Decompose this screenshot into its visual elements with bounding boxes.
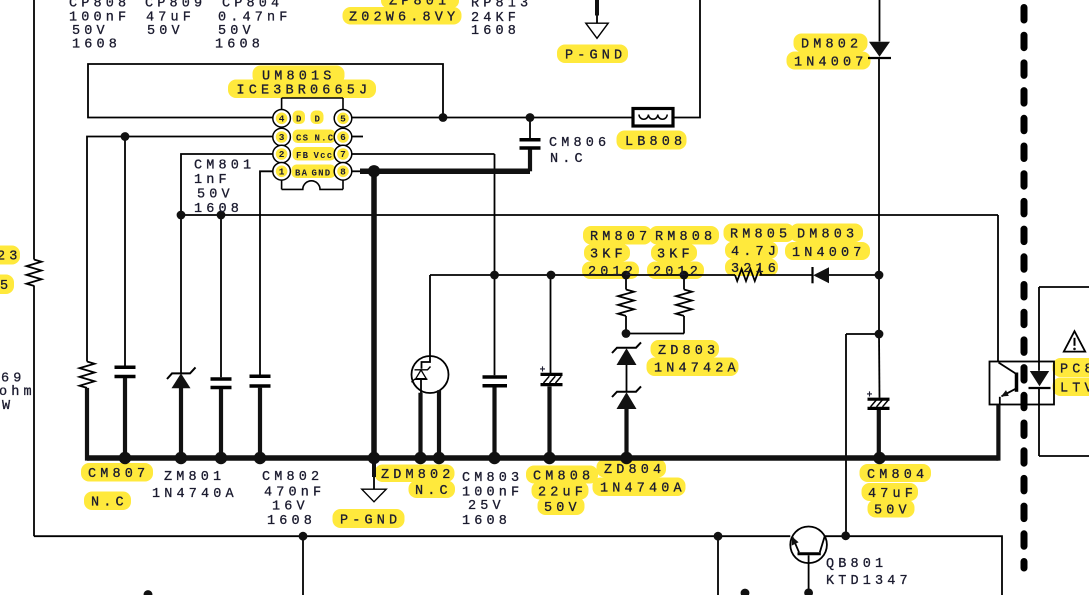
svg-text:50V: 50V bbox=[874, 504, 911, 519]
svg-text:1608: 1608 bbox=[267, 514, 316, 529]
svg-text:1608: 1608 bbox=[215, 38, 264, 53]
svg-text:2: 2 bbox=[279, 149, 285, 160]
svg-text:25V: 25V bbox=[468, 499, 505, 514]
svg-text:N.C: N.C bbox=[91, 496, 128, 511]
svg-text:1608: 1608 bbox=[471, 24, 520, 39]
svg-text:RM808: RM808 bbox=[655, 230, 716, 245]
svg-text:16V: 16V bbox=[272, 500, 309, 515]
svg-text:22uF: 22uF bbox=[538, 486, 587, 501]
svg-text:N.C: N.C bbox=[315, 134, 335, 144]
svg-text:3KF: 3KF bbox=[657, 248, 694, 263]
svg-text:D: D bbox=[296, 115, 303, 125]
svg-text:3216: 3216 bbox=[731, 262, 780, 277]
svg-text:5: 5 bbox=[0, 279, 12, 294]
svg-text:N.C: N.C bbox=[550, 152, 587, 167]
svg-text:GND: GND bbox=[312, 169, 332, 179]
svg-text:8: 8 bbox=[340, 167, 346, 178]
svg-text:ICE3BR0665J: ICE3BR0665J bbox=[237, 84, 372, 99]
svg-text:50V: 50V bbox=[544, 501, 581, 516]
svg-text:CM807: CM807 bbox=[88, 467, 149, 482]
svg-text:1: 1 bbox=[279, 167, 285, 178]
svg-text:RM805: RM805 bbox=[730, 228, 791, 243]
svg-text:ohm: ohm bbox=[0, 385, 36, 400]
svg-text:50V: 50V bbox=[197, 187, 234, 202]
svg-text:1608: 1608 bbox=[72, 38, 121, 53]
svg-text:3: 3 bbox=[279, 132, 285, 143]
svg-text:CM804: CM804 bbox=[867, 468, 928, 483]
svg-text:ZD803: ZD803 bbox=[658, 344, 719, 359]
svg-text:3KF: 3KF bbox=[590, 248, 627, 263]
svg-text:+: + bbox=[540, 366, 546, 377]
svg-text:23: 23 bbox=[0, 250, 22, 265]
svg-text:D: D bbox=[315, 115, 322, 125]
svg-text:1N4740A: 1N4740A bbox=[152, 487, 238, 502]
svg-text:ZDM802: ZDM802 bbox=[381, 468, 455, 483]
svg-text:P-GND: P-GND bbox=[340, 514, 401, 529]
svg-text:W: W bbox=[2, 399, 14, 414]
svg-text:UM801S: UM801S bbox=[262, 70, 336, 85]
svg-text:LB808: LB808 bbox=[625, 135, 686, 150]
svg-text:CM808: CM808 bbox=[533, 470, 594, 485]
svg-text:N.C: N.C bbox=[415, 484, 452, 499]
svg-text:PC80: PC80 bbox=[1060, 363, 1089, 378]
svg-text:ZP801: ZP801 bbox=[389, 0, 450, 10]
svg-text:CS: CS bbox=[296, 134, 309, 144]
svg-text:LTV8: LTV8 bbox=[1060, 382, 1089, 397]
svg-text:2012: 2012 bbox=[653, 265, 702, 280]
svg-text:470nF: 470nF bbox=[264, 486, 325, 501]
svg-text:FB: FB bbox=[296, 151, 309, 161]
svg-text:DM803: DM803 bbox=[797, 228, 858, 243]
svg-text:50V: 50V bbox=[147, 24, 184, 39]
svg-text:CM802: CM802 bbox=[262, 470, 323, 485]
svg-text:7: 7 bbox=[340, 149, 346, 160]
svg-text:CM806: CM806 bbox=[549, 136, 610, 151]
svg-text:ZD804: ZD804 bbox=[604, 463, 665, 478]
svg-text:47uF: 47uF bbox=[868, 487, 917, 502]
svg-text:4.7J: 4.7J bbox=[731, 245, 780, 260]
svg-text:BA: BA bbox=[295, 169, 308, 179]
svg-text:1N4740A: 1N4740A bbox=[600, 482, 686, 497]
svg-text:ZM801: ZM801 bbox=[164, 470, 225, 485]
svg-text:Vcc: Vcc bbox=[314, 151, 334, 161]
svg-text:5: 5 bbox=[340, 114, 346, 125]
svg-text:P-GND: P-GND bbox=[565, 49, 626, 64]
svg-text:+: + bbox=[867, 391, 873, 402]
svg-text:1N4007: 1N4007 bbox=[794, 56, 868, 71]
svg-text:KTD1347: KTD1347 bbox=[826, 574, 912, 589]
svg-text:Z02W6.8VY: Z02W6.8VY bbox=[349, 11, 459, 26]
svg-text:CM803: CM803 bbox=[462, 471, 523, 486]
svg-text:DM802: DM802 bbox=[801, 38, 862, 53]
svg-text:1nF: 1nF bbox=[194, 173, 231, 188]
svg-text:2012: 2012 bbox=[588, 265, 637, 280]
svg-text:1N4742A: 1N4742A bbox=[654, 362, 740, 377]
svg-text:QB801: QB801 bbox=[826, 557, 887, 572]
svg-text:6: 6 bbox=[340, 132, 346, 143]
svg-text:RP813: RP813 bbox=[471, 0, 532, 12]
svg-text:1608: 1608 bbox=[194, 202, 243, 217]
svg-text:1608: 1608 bbox=[462, 514, 511, 529]
svg-text:CM801: CM801 bbox=[194, 158, 255, 173]
svg-text:4: 4 bbox=[279, 114, 285, 125]
svg-text:RM807: RM807 bbox=[590, 230, 651, 245]
svg-text:1N4007: 1N4007 bbox=[792, 246, 866, 261]
